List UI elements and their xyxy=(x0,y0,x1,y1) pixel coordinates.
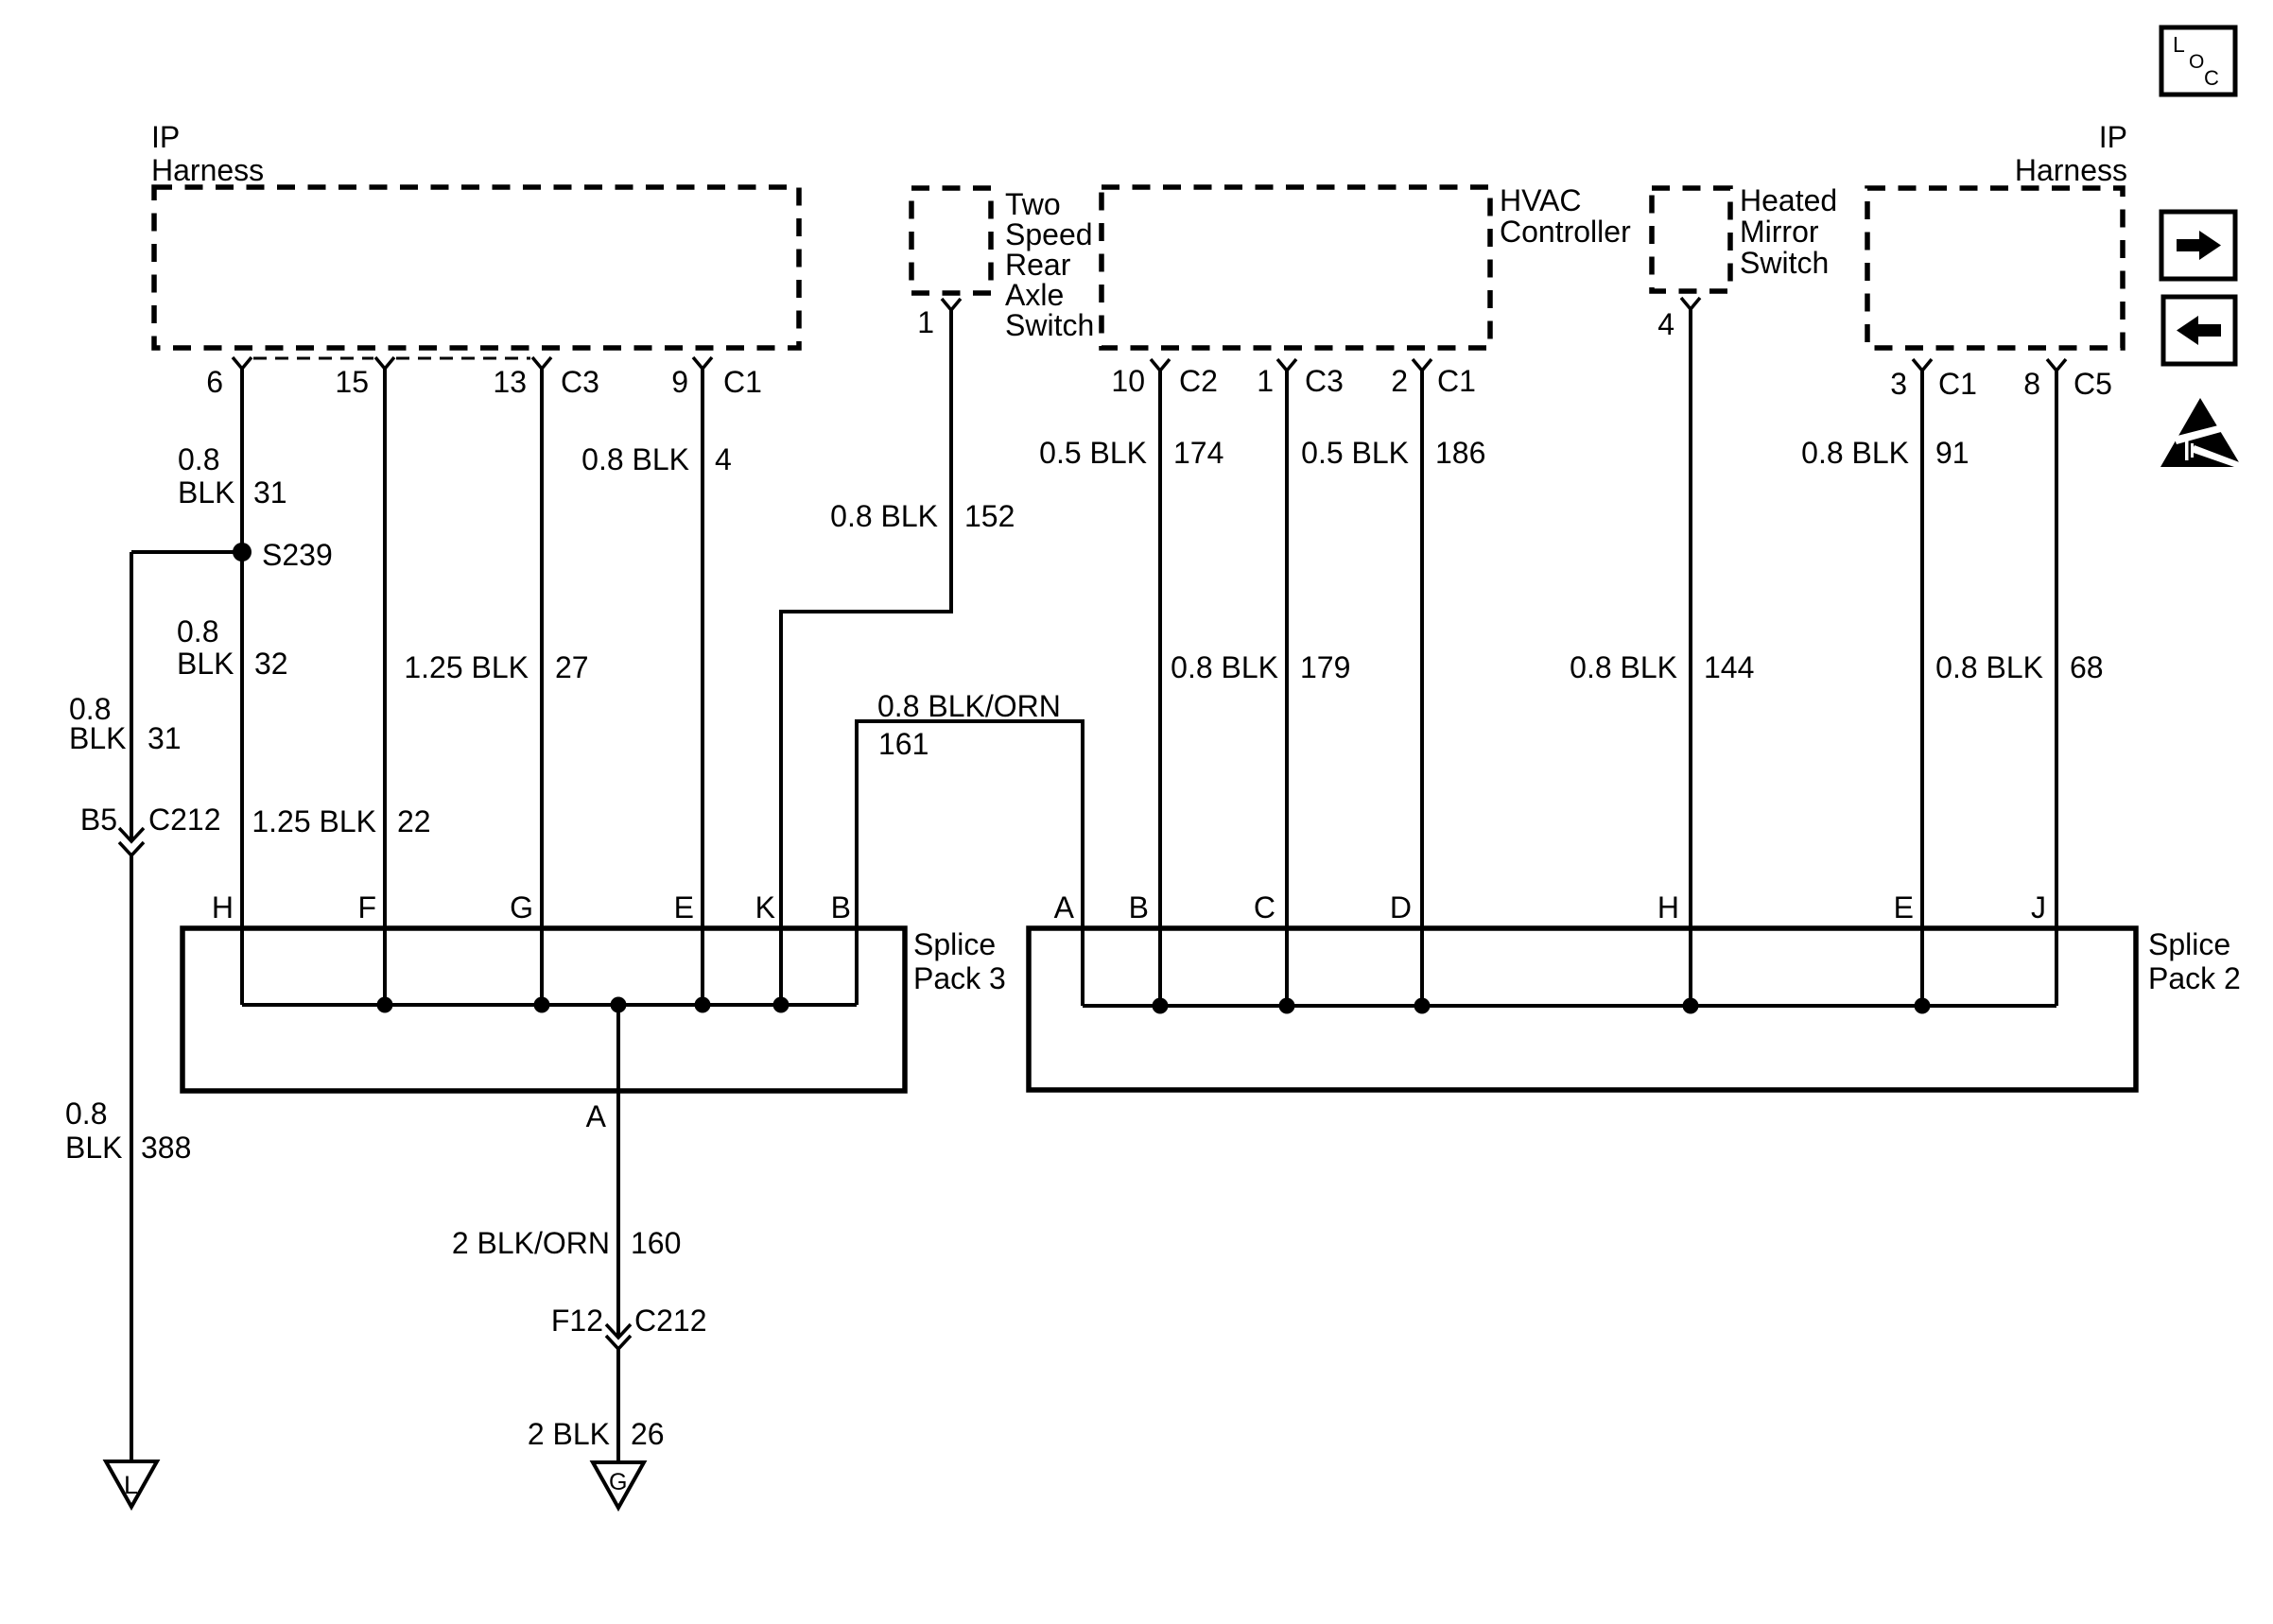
svg-text:26: 26 xyxy=(631,1417,665,1451)
wire: 0.5 BLK 174 from HVAC pin 10 to splice pack 2 pin B xyxy=(1158,371,1162,1006)
wire label 0.8 BLK 4 xyxy=(581,442,732,476)
wire label 1.25 BLK 27 xyxy=(404,650,588,684)
svg-text:C: C xyxy=(1254,890,1275,924)
connector label F12 C212 xyxy=(551,1304,707,1338)
svg-text:C1: C1 xyxy=(1938,367,1977,401)
svg-text:2: 2 xyxy=(1391,364,1408,398)
svg-text:0.8 BLK: 0.8 BLK xyxy=(581,442,689,476)
svg-text:F12: F12 xyxy=(551,1304,603,1338)
svg-text:1.25 BLK: 1.25 BLK xyxy=(404,650,529,684)
svg-text:BLK: BLK xyxy=(178,475,234,510)
splice pack 2 junction dot H xyxy=(1683,998,1699,1014)
icon: left-arrow box xyxy=(2163,297,2235,364)
splice pack 2 junction dot B xyxy=(1153,998,1169,1014)
svg-text:Speed: Speed xyxy=(1005,217,1093,251)
splice pack 3 junction dot A xyxy=(611,997,627,1013)
svg-text:Rear: Rear xyxy=(1005,248,1071,282)
pin 8 connector Y (right IP C5) xyxy=(2047,359,2066,371)
label: Heated Mirror Switch xyxy=(1740,183,1837,280)
splice pack 2 pin letters xyxy=(1054,890,2046,924)
pin 10 connector Y (HVAC C2) xyxy=(1151,359,1170,371)
wire: 0.8 BLK 4 from pin 9 to splice pack 3 pin E xyxy=(701,369,704,1005)
svg-text:C: C xyxy=(2204,66,2219,90)
svg-text:32: 32 xyxy=(254,647,288,681)
svg-text:G: G xyxy=(510,890,533,924)
wire label 0.8 BLK 144 xyxy=(1570,650,1754,684)
wire label 2 BLK 26 xyxy=(528,1417,665,1451)
splice pack 2 junction dot D xyxy=(1414,998,1431,1014)
svg-text:IP: IP xyxy=(2099,120,2127,154)
svg-text:3: 3 xyxy=(1890,367,1907,401)
svg-text:C3: C3 xyxy=(561,365,599,399)
svg-text:6: 6 xyxy=(206,365,223,399)
wire label 0.8 BLK 68 xyxy=(1935,650,2103,684)
icon: right-arrow box xyxy=(2161,212,2235,279)
pin 1 connector Y (two speed switch) xyxy=(942,299,961,310)
svg-text:0.8 BLK: 0.8 BLK xyxy=(1801,436,1909,470)
wire: 2 BLK 26 from C212 to ground G xyxy=(616,1349,620,1462)
svg-text:8: 8 xyxy=(2023,367,2040,401)
splice pack 3 pin letters xyxy=(212,890,851,924)
svg-text:13: 13 xyxy=(493,365,527,399)
splice pack 2 junction dot E xyxy=(1915,998,1931,1014)
svg-text:Harness: Harness xyxy=(2015,153,2127,187)
splice S239 xyxy=(233,543,252,561)
splice pack 3 outline xyxy=(182,928,905,1091)
wire: 0.8 BLK 144 from mirror switch pin 4 to splice pack 2 pin H xyxy=(1689,309,1692,1006)
label: Splice Pack 3 xyxy=(913,927,1006,995)
connector link dashed line pins 6-15-13 xyxy=(253,357,373,360)
label: left IP Harness xyxy=(151,120,264,187)
svg-text:A: A xyxy=(586,1099,607,1133)
splice pack 2 bus bar xyxy=(1083,1004,2056,1008)
wire: 0.5 BLK 186 from HVAC pin 2 to splice pack 2 pin D xyxy=(1420,371,1424,1006)
svg-text:HVAC: HVAC xyxy=(1500,183,1582,217)
wire: 1.25 BLK 27 from pin 13 to splice pack 3 pin G xyxy=(540,369,544,1005)
wire label 0.8 BLK 31 (left branch) xyxy=(69,692,182,755)
svg-text:C212: C212 xyxy=(148,803,221,837)
component: HVAC Controller (dashed box) xyxy=(1102,187,1490,348)
svg-text:Controller: Controller xyxy=(1500,215,1631,249)
svg-text:174: 174 xyxy=(1173,436,1223,470)
svg-text:186: 186 xyxy=(1435,436,1485,470)
wire: 0.8 BLK 388 from C212 to ground L xyxy=(130,855,133,1461)
wire label 0.5 BLK 174 xyxy=(1039,436,1223,470)
label: right IP Harness xyxy=(2015,120,2127,187)
svg-text:Pack 2: Pack 2 xyxy=(2148,961,2241,995)
wire: splice pack 3 output A to ground G xyxy=(616,1005,620,1338)
in-line connector C212 pin F12 (double chevron) xyxy=(606,1324,631,1338)
svg-text:0.8: 0.8 xyxy=(177,614,218,648)
svg-text:Switch: Switch xyxy=(1740,246,1829,280)
svg-text:J: J xyxy=(2031,890,2046,924)
svg-text:L: L xyxy=(2173,32,2185,57)
svg-text:31: 31 xyxy=(147,721,182,755)
svg-text:Two: Two xyxy=(1005,187,1061,221)
splice pack 3 junction dot K xyxy=(773,997,789,1013)
svg-text:BLK: BLK xyxy=(65,1131,122,1165)
svg-text:10: 10 xyxy=(1111,364,1145,398)
svg-text:L: L xyxy=(124,1471,138,1499)
ground symbol L xyxy=(106,1461,157,1507)
pin 4 connector Y (mirror switch) xyxy=(1681,298,1700,309)
wire label 0.8 BLK/ORN 161 xyxy=(877,689,1061,761)
pin 3 connector Y (right IP C1) xyxy=(1913,359,1932,371)
svg-text:91: 91 xyxy=(1935,436,1969,470)
svg-text:B: B xyxy=(1129,890,1149,924)
wire label 0.8 BLK 152 xyxy=(830,499,1015,533)
svg-text:Splice: Splice xyxy=(913,927,996,961)
svg-text:22: 22 xyxy=(397,804,431,838)
wire label 0.8 BLK 179 xyxy=(1171,650,1350,684)
svg-text:C2: C2 xyxy=(1179,364,1218,398)
svg-text:H: H xyxy=(212,890,234,924)
svg-text:Axle: Axle xyxy=(1005,278,1064,312)
wire: 0.8 BLK 91 from right IP pin 3 to splice pack 2 pin E xyxy=(1920,371,1924,1006)
svg-text:Mirror: Mirror xyxy=(1740,215,1819,249)
svg-text:E: E xyxy=(1894,890,1914,924)
label: HVAC Controller xyxy=(1500,183,1631,249)
splice pack 2 outline xyxy=(1029,928,2136,1090)
wire label 0.8 BLK 31 (pin 6 upper) xyxy=(178,442,287,510)
svg-text:O: O xyxy=(2189,51,2204,73)
svg-text:388: 388 xyxy=(141,1131,191,1165)
splice pack 3 junction dot E xyxy=(695,997,711,1013)
svg-text:C1: C1 xyxy=(723,365,762,399)
in-line connector C212 pin B5 (double chevron) xyxy=(119,828,144,841)
svg-text:161: 161 xyxy=(878,727,928,761)
wire: 0.8 BLK 68 from right IP pin 8 to splice pack 2 pin J xyxy=(2055,371,2058,1006)
svg-text:68: 68 xyxy=(2070,650,2104,684)
svg-text:A: A xyxy=(1054,890,1075,924)
svg-text:F: F xyxy=(357,890,376,924)
component: Heated Mirror Switch (dashed box) xyxy=(1652,188,1730,291)
svg-text:D: D xyxy=(1390,890,1412,924)
svg-text:152: 152 xyxy=(964,499,1015,533)
wire: 0.8 BLK 31/32 from pin 6 to splice pack 3 pin H xyxy=(240,369,244,1005)
svg-text:31: 31 xyxy=(253,475,287,510)
svg-text:2 BLK/ORN: 2 BLK/ORN xyxy=(452,1226,610,1260)
icon: LOC reference box xyxy=(2161,27,2235,95)
wire label 1.25 BLK 22 xyxy=(252,804,430,838)
icon: ESD warning triangle xyxy=(2160,398,2242,467)
svg-text:1: 1 xyxy=(1257,364,1274,398)
svg-text:E: E xyxy=(674,890,694,924)
pin 6 connector Y xyxy=(233,357,252,369)
wire label 0.8 BLK 91 xyxy=(1801,436,1969,470)
svg-text:2 BLK: 2 BLK xyxy=(528,1417,610,1451)
svg-text:0.8 BLK/ORN: 0.8 BLK/ORN xyxy=(877,689,1061,723)
wire label 0.5 BLK 186 xyxy=(1301,436,1485,470)
wire label 0.8 BLK 32 (pin 6 lower) xyxy=(177,614,288,681)
svg-text:1: 1 xyxy=(917,305,934,339)
splice pack 2 junction dot C xyxy=(1279,998,1295,1014)
wire label 2 BLK/ORN 160 xyxy=(452,1226,682,1260)
svg-text:0.8: 0.8 xyxy=(65,1097,107,1131)
svg-text:1.25 BLK: 1.25 BLK xyxy=(252,804,376,838)
svg-text:C1: C1 xyxy=(1437,364,1476,398)
pin 9 connector Y xyxy=(693,357,712,369)
svg-text:0.8: 0.8 xyxy=(178,442,219,476)
svg-text:0.8 BLK: 0.8 BLK xyxy=(830,499,938,533)
svg-text:C212: C212 xyxy=(634,1304,707,1338)
pin 15 connector Y xyxy=(375,357,394,369)
wire: 0.8 BLK 152 from two speed switch pin 1 to splice pack 3 pin K xyxy=(781,310,951,1005)
svg-text:Pack 3: Pack 3 xyxy=(913,961,1006,995)
pin 1 connector Y (HVAC C3) xyxy=(1277,359,1296,371)
wire: 0.8 BLK/ORN 161 splice pack 3 pin B to splice pack 2 pin A xyxy=(857,721,1083,1006)
svg-text:0.8 BLK: 0.8 BLK xyxy=(1570,650,1677,684)
svg-text:Harness: Harness xyxy=(151,153,264,187)
connector box: right IP Harness (dashed) xyxy=(1867,188,2123,348)
label: Splice Pack 2 xyxy=(2148,927,2241,995)
svg-text:G: G xyxy=(609,1469,627,1495)
svg-text:15: 15 xyxy=(335,365,369,399)
svg-text:S239: S239 xyxy=(262,538,333,572)
svg-text:160: 160 xyxy=(631,1226,681,1260)
label: Two Speed Rear Axle Switch xyxy=(1005,187,1094,342)
svg-text:179: 179 xyxy=(1300,650,1350,684)
svg-text:144: 144 xyxy=(1704,650,1754,684)
svg-text:BLK: BLK xyxy=(177,647,234,681)
svg-text:B: B xyxy=(831,890,851,924)
svg-text:B5: B5 xyxy=(80,803,117,837)
svg-text:0.8 BLK: 0.8 BLK xyxy=(1171,650,1278,684)
pin 13 connector Y xyxy=(532,357,551,369)
component: Two Speed Rear Axle Switch (dashed box) xyxy=(911,188,991,293)
wire: 0.5 BLK 186 / 0.8 BLK 179 from HVAC pin 1 to splice pack 2 pin C xyxy=(1285,371,1289,1006)
svg-text:0.5 BLK: 0.5 BLK xyxy=(1301,436,1409,470)
svg-text:K: K xyxy=(755,890,775,924)
svg-text:H: H xyxy=(1657,890,1679,924)
connector label B5 C212 xyxy=(80,803,221,837)
connector box: left IP Harness (dashed) xyxy=(154,187,799,348)
pin 2 connector Y (HVAC C1) xyxy=(1413,359,1431,371)
ground symbol G xyxy=(593,1462,644,1508)
svg-text:4: 4 xyxy=(715,442,732,476)
svg-text:4: 4 xyxy=(1657,307,1674,341)
svg-text:Switch: Switch xyxy=(1005,308,1094,342)
svg-text:27: 27 xyxy=(555,650,589,684)
svg-text:IP: IP xyxy=(151,120,180,154)
svg-text:Splice: Splice xyxy=(2148,927,2230,961)
wire: 1.25 BLK 22 from pin 15 to splice pack 3 pin F xyxy=(383,369,387,1005)
svg-text:Heated: Heated xyxy=(1740,183,1837,217)
svg-text:BLK: BLK xyxy=(69,721,126,755)
svg-text:0.8 BLK: 0.8 BLK xyxy=(1935,650,2043,684)
svg-text:C5: C5 xyxy=(2073,367,2112,401)
splice pack 3 junction dot F xyxy=(377,997,393,1013)
wire label 0.8 BLK 388 xyxy=(65,1097,191,1165)
svg-text:0.5 BLK: 0.5 BLK xyxy=(1039,436,1147,470)
svg-text:C3: C3 xyxy=(1305,364,1344,398)
svg-text:9: 9 xyxy=(671,365,688,399)
splice pack 3 junction dot G xyxy=(534,997,550,1013)
wire: branch from S239 to C212 B5 xyxy=(131,550,242,554)
splice pack 3 bus bar xyxy=(242,1003,857,1007)
